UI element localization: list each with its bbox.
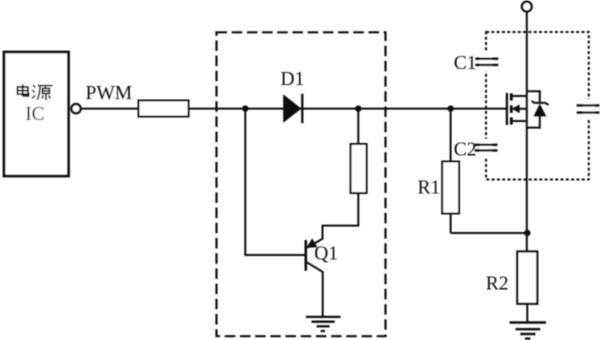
svg-text:C1: C1 [454, 53, 477, 74]
svg-text:D1: D1 [281, 69, 305, 90]
svg-text:Q1: Q1 [314, 244, 338, 265]
svg-text:R2: R2 [486, 274, 509, 295]
svg-text:R1: R1 [418, 178, 441, 199]
svg-text:C2: C2 [454, 139, 477, 160]
svg-text:IC: IC [25, 104, 45, 125]
svg-text:PWM: PWM [86, 83, 133, 104]
